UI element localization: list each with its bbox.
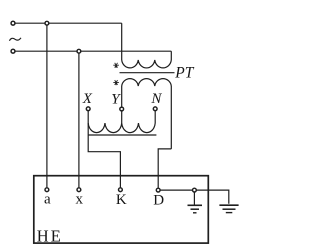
svg-text:PT: PT [174, 65, 194, 82]
winding: PT secondary (3 humps) [122, 79, 172, 86]
AC tilde symbol [9, 38, 21, 41]
polarity asterisk (primary winding) [113, 63, 119, 68]
junction J2 [77, 49, 81, 53]
wire: jog from secondary right lead to terminal D [158, 149, 171, 190]
outer ground bar 1 [219, 204, 238, 206]
terminal Y circle [120, 107, 124, 111]
wire: junction J2 down to terminal x [78, 51, 80, 190]
svg-text:x: x [75, 192, 83, 208]
wire: X lead down, jog right, down to terminal K [88, 111, 120, 190]
inner ground bar 1 [188, 204, 203, 206]
wire: PT primary left lead (vertical) [121, 23, 123, 60]
svg-text:D: D [153, 192, 164, 208]
terminal D circle [156, 188, 160, 192]
winding: tertiary X-Y-N (4 scallops) [88, 123, 155, 133]
inner ground bar 3 [193, 212, 197, 214]
winding: PT primary (3 scallops) [122, 60, 172, 68]
tertiary core line [88, 134, 156, 136]
terminal K circle [119, 188, 123, 192]
polarity asterisk (secondary winding) [113, 80, 119, 85]
outer ground bar 3 [226, 212, 233, 214]
wire: N lead (short vertical) [154, 111, 156, 123]
svg-text:HE: HE [37, 227, 63, 246]
wire: bottom source line to PT primary right corner [15, 50, 171, 52]
AC source terminal bottom [11, 49, 15, 53]
terminal X circle [86, 107, 90, 111]
AC source terminal top [11, 21, 15, 25]
svg-text:a: a [44, 192, 51, 208]
svg-text:X: X [82, 91, 93, 107]
outer ground bar 2 [223, 208, 236, 210]
inner ground bar 2 [191, 208, 200, 210]
svg-text:K: K [116, 192, 127, 208]
wire: PT secondary right lead down [170, 86, 172, 149]
junction J1 [45, 21, 49, 25]
ground connection circle [193, 188, 197, 192]
terminal N circle [153, 107, 157, 111]
svg-text:N: N [150, 91, 162, 107]
wire: inner ground stem [193, 190, 195, 205]
HE box [34, 176, 209, 243]
wire: D to earth grounds [158, 190, 229, 204]
wire: PT secondary left lead down to Y and tertiary cusp [121, 86, 123, 123]
wire: top source line to PT primary left corner [15, 22, 122, 24]
wire: PT primary right lead (vertical) [170, 51, 172, 60]
wire: junction J1 down to terminal a [46, 23, 48, 190]
terminal a circle [45, 188, 49, 192]
svg-text:Y: Y [111, 91, 121, 107]
terminal x circle [77, 188, 81, 192]
PT core line [120, 72, 175, 74]
